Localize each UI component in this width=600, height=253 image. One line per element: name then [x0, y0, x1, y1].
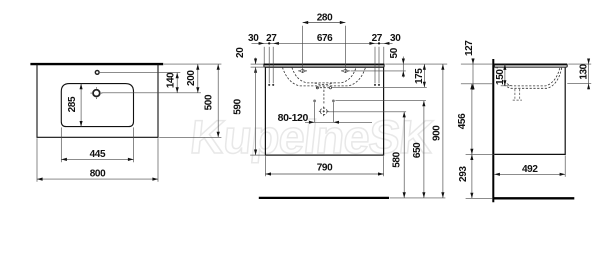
dim 500 (counter depth) [204, 64, 220, 137]
ext verticals tap holes [303, 26, 346, 68]
wall line (thick) [492, 59, 494, 202]
ext 127 level left [461, 83, 492, 85]
floor ext right [390, 197, 446, 199]
ext cabinet bottom left [250, 154, 265, 156]
svg-text:650: 650 [412, 142, 423, 158]
ext 130 level [567, 83, 591, 85]
dim 140 (tap to drain) [165, 72, 179, 93]
ext line from tap hole to right [100, 72, 181, 74]
ext bowl bottom small [501, 85, 511, 87]
dim 900 [432, 64, 445, 198]
hidden drain tailpiece (dashed) [513, 89, 522, 100]
ext dot2 level right (to 650) [335, 100, 426, 102]
ext verticals fixing holes left [269, 47, 273, 83]
svg-text:492: 492 [522, 164, 538, 175]
ext cabinet bottom to left [466, 153, 494, 155]
hidden drain recess dip (dashed) [315, 83, 334, 85]
svg-text:30: 30 [390, 33, 401, 44]
svg-text:30: 30 [248, 33, 259, 44]
svg-text:790: 790 [317, 162, 333, 173]
siphon fixing dots [313, 100, 335, 103]
dim 285 (basin depth) [67, 84, 83, 127]
tap hole position left (dashed diamond) [298, 68, 307, 73]
dim 80-120 drain offset [278, 112, 372, 124]
svg-text:500: 500 [204, 94, 215, 110]
dim 280 (tap hole spacing) [303, 13, 346, 24]
front slab top edge (thick) [264, 63, 384, 65]
drain pipe position symbol 80-120 (dashed circle) [319, 107, 329, 117]
svg-text:800: 800 [90, 169, 106, 180]
watermark [188, 110, 436, 163]
dim row 30/27/676/27/30 [248, 33, 401, 45]
hidden drain center line (dashed) [323, 86, 325, 104]
ext slab left to left dims [251, 64, 265, 67]
floor line under side view [493, 197, 574, 199]
dim 590 cabinet height [233, 67, 258, 155]
dim 650 [412, 101, 426, 198]
dim 293 [458, 154, 474, 198]
svg-text:676: 676 [317, 33, 333, 44]
side slab top edge (thick) [494, 63, 567, 65]
ext lines below basin [61, 127, 133, 162]
dim 20 slab thickness [235, 47, 257, 73]
fixing holes left pair [268, 84, 274, 86]
svg-text:285: 285 [67, 96, 78, 112]
washbasin plan basin bowl rounded rect [61, 84, 133, 127]
ext cabinet right down [564, 155, 566, 176]
dim 127 [464, 40, 475, 90]
floor line under front view [259, 197, 389, 199]
hidden basin outer contour (front, dashed) [282, 67, 365, 86]
svg-text:590: 590 [233, 98, 244, 114]
hidden drain cross line (dashed) [316, 87, 332, 89]
ext cabinet corners down (790) [265, 156, 383, 176]
ext target level right (to 580) [328, 111, 406, 113]
tap hole (plan) [95, 71, 99, 75]
dim 445 (basin width) [61, 149, 133, 161]
svg-text:140: 140 [165, 72, 176, 88]
drain hole with crosshair (plan) [91, 87, 103, 99]
side slab washbasin [494, 64, 567, 67]
ext slab top right long (to 900) [385, 63, 447, 65]
ext line from counter bottom right [159, 136, 221, 138]
svg-text:130: 130 [578, 63, 589, 79]
dim 800 (counter width) [37, 169, 158, 181]
svg-text:80-120: 80-120 [278, 112, 309, 124]
svg-text:150: 150 [495, 69, 506, 85]
dim 200 (top to drain) [186, 64, 200, 93]
tap hole position right (dashed diamond) [341, 68, 350, 73]
dim 790 cabinet width [265, 162, 383, 175]
svg-text:456: 456 [457, 113, 468, 129]
washbasin plan counter outline 800x500 [37, 64, 158, 137]
svg-text:175: 175 [414, 68, 425, 84]
dim 150 bowl depth [495, 64, 506, 86]
hidden bowl profile inner (dashed) [497, 68, 560, 86]
ext line from drain to right [102, 92, 201, 94]
ext lines below counter [37, 138, 158, 182]
ext floor to left [466, 197, 493, 199]
ext verticals slab ends [264, 47, 384, 64]
svg-text:27: 27 [372, 33, 383, 44]
svg-text:445: 445 [90, 149, 106, 160]
svg-text:50: 50 [389, 47, 400, 58]
fixing holes right pair [374, 84, 380, 86]
svg-text:900: 900 [432, 125, 443, 141]
dim 580 [392, 112, 406, 198]
front cabinet outline 790x590 [265, 67, 383, 155]
svg-text:293: 293 [458, 166, 469, 182]
ext slab top to wall left [461, 63, 492, 65]
drain screw holes [316, 87, 331, 89]
ext drain level right (to 175) [332, 86, 427, 88]
dim 175 [414, 64, 426, 87]
ext verticals siphon dots down [315, 102, 334, 122]
dim 492 cabinet depth [494, 164, 565, 176]
svg-text:200: 200 [186, 70, 197, 86]
ext slab top right side [568, 63, 591, 65]
dim 50 slab top to tap [389, 47, 405, 77]
ext line from counter top right [164, 63, 222, 65]
hidden basin inner contour (front, dashed) [292, 68, 356, 83]
svg-text:580: 580 [392, 151, 403, 167]
hidden bowl profile outer (dashed) [496, 68, 562, 89]
front slab washbasin 20mm [264, 64, 384, 67]
svg-text:127: 127 [464, 40, 475, 56]
dim 130 [578, 59, 590, 90]
ext tap level right (to 50) [351, 70, 406, 72]
dim 456 [457, 84, 473, 155]
svg-text:20: 20 [235, 47, 246, 58]
svg-text:27: 27 [266, 33, 277, 44]
washbasin plan counter top back edge (thick) [30, 63, 163, 65]
svg-text:280: 280 [317, 13, 333, 24]
side cabinet outline [494, 68, 565, 155]
ext verticals fixing holes right [375, 47, 379, 83]
